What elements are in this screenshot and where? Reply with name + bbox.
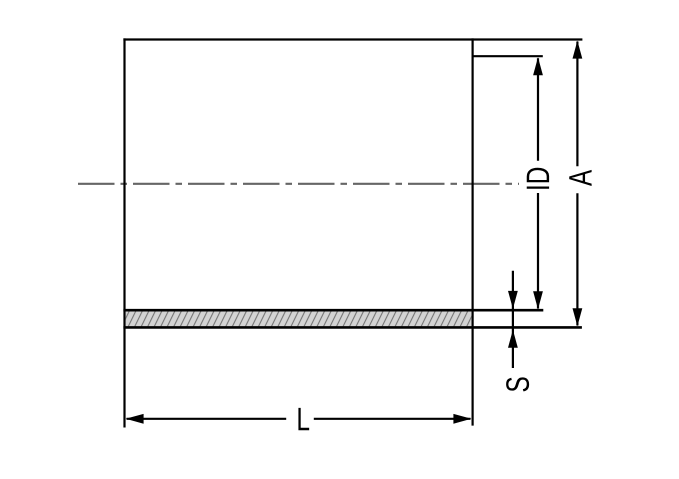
part outline top edge (extends right as extension line for A): [123, 38, 582, 40]
arrowhead A down: [573, 308, 583, 326]
arrowhead S down (above wall): [508, 291, 518, 309]
label S: [506, 377, 529, 391]
part outline right edge (extends down as extension line for L): [472, 38, 474, 425]
label A: [569, 170, 591, 186]
dimension line S (vertical, wall thickness): [512, 271, 514, 368]
extension line top for ID: [473, 55, 543, 57]
label L: [298, 408, 309, 430]
dimension line ID (vertical): [537, 58, 539, 161]
arrowhead L left: [126, 414, 144, 424]
dimension line L (horizontal, bottom): [127, 418, 287, 420]
arrowhead ID up: [533, 57, 543, 75]
wall section bottom edge (extends right as extension line for A): [123, 326, 582, 329]
arrowhead L right: [453, 414, 471, 424]
arrowhead S up (below wall): [508, 330, 518, 348]
wall section top edge (extends right as extension line for ID): [123, 309, 543, 312]
label ID: [527, 168, 549, 189]
arrowhead ID down: [533, 291, 543, 309]
arrowhead A up: [573, 41, 583, 59]
hatched wall section: [126, 311, 472, 326]
dimension line A (vertical, right): [576, 42, 578, 167]
centerline (dash-dot axis): [78, 183, 519, 185]
part outline left edge (extends down as extension line for L): [123, 38, 125, 427]
